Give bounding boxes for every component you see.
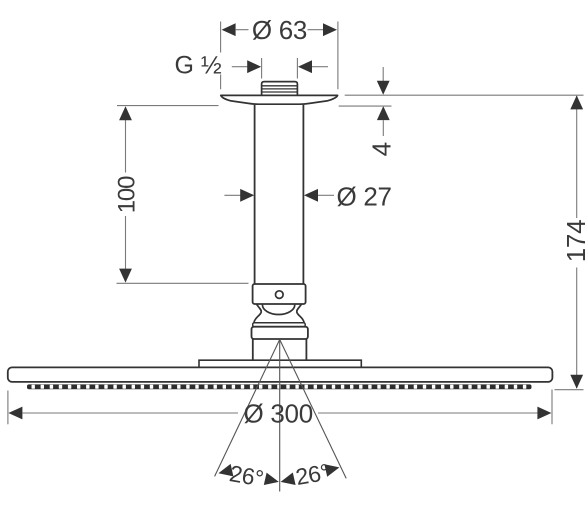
dim174 down arrow <box>570 375 583 389</box>
dim174 line <box>576 96 578 388</box>
svg-text:100: 100 <box>114 176 141 213</box>
svg-text:4: 4 <box>367 142 397 156</box>
dim174 up arrow <box>570 95 583 109</box>
dim100 up arrow <box>119 106 132 120</box>
G1/2 left arrow <box>247 60 261 73</box>
angle center right arrow <box>264 473 279 485</box>
dimension O63 line <box>236 29 324 31</box>
dimension O63 extension lines <box>221 22 338 90</box>
dim100 line <box>125 108 127 282</box>
dim300 line <box>23 412 538 414</box>
dim27 left tail <box>224 194 240 196</box>
ceiling flange <box>221 95 338 104</box>
ceiling extension line <box>339 105 392 107</box>
G1/2 leader line <box>232 66 248 68</box>
G1/2 extension lines <box>262 58 298 79</box>
ball arc <box>262 305 294 315</box>
dim100 extension bottom <box>117 282 249 284</box>
collar ring <box>253 323 306 327</box>
dim27 left arrow <box>240 189 254 202</box>
ball joint right profile <box>297 304 304 323</box>
O63 left arrow <box>222 23 236 36</box>
ball joint left profile <box>254 304 261 323</box>
dim174 bottom extension <box>555 389 584 391</box>
spray left line <box>215 340 280 477</box>
dim4 down arrow <box>377 81 390 95</box>
svg-text:174: 174 <box>561 220 588 262</box>
svg-text:Ø 63: Ø 63 <box>252 15 307 45</box>
svg-text:Ø 300: Ø 300 <box>244 398 313 428</box>
dim4 up arrow <box>377 106 390 120</box>
screw hole <box>276 291 284 299</box>
angle left arrow <box>218 464 233 477</box>
dim300 right arrow <box>537 407 551 420</box>
junction block <box>253 284 306 304</box>
dim100 down arrow <box>119 269 132 283</box>
spray center line <box>279 340 281 492</box>
neck <box>253 339 307 360</box>
G1/2 right tail <box>312 66 328 68</box>
angle center left arrow <box>281 473 296 486</box>
shower head disc <box>8 367 553 382</box>
dim300 left arrow <box>8 407 22 420</box>
mounting platform <box>199 360 361 367</box>
dim4 top leader <box>382 67 384 84</box>
svg-text:G ½: G ½ <box>175 52 222 80</box>
angle right arrow <box>324 464 339 477</box>
dim4 bottom leader <box>382 120 384 136</box>
svg-text:Ø 27: Ø 27 <box>337 181 392 211</box>
dim100 extension top <box>117 105 219 107</box>
nut ring <box>252 327 308 339</box>
spray right line <box>280 340 347 479</box>
dim27 right arrow <box>304 189 318 202</box>
flange top extension line <box>345 94 584 96</box>
threaded stem G1/2 <box>262 82 298 96</box>
thread lines <box>262 86 298 92</box>
nozzle band <box>27 384 532 389</box>
G1/2 right arrow <box>298 60 312 73</box>
dim27 right tail <box>318 194 334 196</box>
pipe <box>255 105 304 284</box>
dim300 extension lines <box>8 390 552 425</box>
O63 right arrow <box>323 23 337 36</box>
